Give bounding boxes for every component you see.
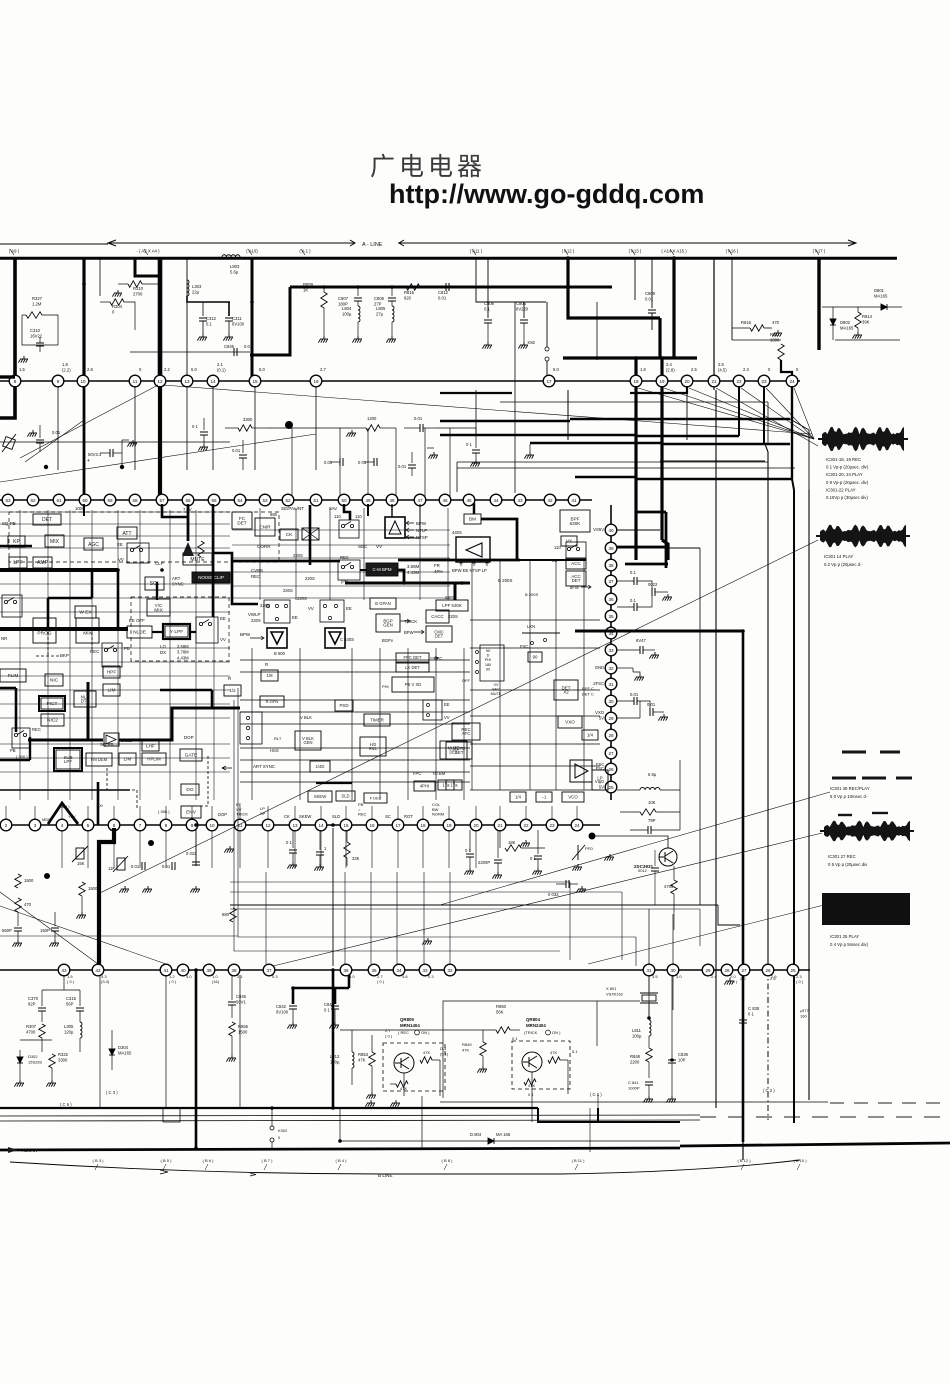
wire [351,1030,353,1052]
ground [492,872,502,879]
svg-text:100µ: 100µ [342,312,352,317]
wire x196 [195,828,197,866]
thick vert x16 [15,688,18,732]
label PB REC [358,802,367,817]
svg-text:0.01: 0.01 [414,416,423,421]
loop wire y936 left [0,935,238,937]
mesh wire [299,648,301,800]
svg-text:2.7: 2.7 [320,367,326,372]
ground [366,1092,376,1099]
pin 43 [514,494,526,506]
svg-text:24: 24 [789,379,795,384]
svg-text:47: 47 [417,498,423,503]
pin voltage 5.0 [259,367,265,372]
block AGC [84,538,103,550]
junction [44,465,48,469]
inductor L804 100u [342,306,352,317]
waveform 5 caption [830,934,869,947]
svg-text:IC301-22 PLAY: IC301-22 PLAY [826,487,856,492]
mesh wire [232,529,450,531]
mesh wire [499,560,501,790]
IC edge row2 [0,499,592,501]
ground [314,864,324,871]
pointer to waveform 2 [100,540,818,893]
wire [338,1164,341,1170]
block LPF [9,557,27,568]
wire [654,850,656,866]
resistor [396,1081,408,1087]
pin voltage 1.5|( 0 ) [67,974,75,984]
svg-text:55: 55 [211,498,217,503]
block 17a [438,780,454,790]
wire [203,418,205,430]
wire [648,1085,650,1096]
svg-text:41: 41 [571,498,577,503]
pin 34 [605,627,617,639]
wire [163,1108,180,1122]
switch [4,598,16,604]
pin 8 [160,819,172,831]
wire [732,327,750,329]
thick wire pin12 down [158,386,162,496]
junction [390,285,394,289]
wire [29,737,31,760]
svg-text:0 1: 0 1 [324,1008,330,1013]
wire [423,427,436,429]
mesh wire [169,510,171,800]
svg-text:2.2: 2.2 [164,367,170,372]
ground [532,868,542,875]
wire [152,631,163,633]
block LP [592,770,608,790]
pin 23 [758,375,770,387]
svg-text:5.1: 5.1 [572,1049,578,1054]
loop wire y468 [457,467,795,469]
diode D802 MA165 [840,320,854,331]
pin stub [422,806,424,820]
wire [79,1038,81,1052]
capacitor C841 1000P [628,1080,640,1091]
svg-text:1/4: 1/4 [515,795,521,800]
resistor [778,344,784,360]
block W EX [75,606,96,618]
svg-text:3.0: 3.0 [676,974,682,979]
svg-text:26: 26 [608,767,614,772]
pointer line [25,420,84,462]
wire [439,1060,441,1096]
thick vert x310 [309,505,312,565]
svg-text:B LINE: B LINE [378,1173,393,1178]
wire [51,1068,53,1080]
svg-text:IC301-20, 24 PLAY: IC301-20, 24 PLAY [826,472,863,477]
svg-text:30: 30 [670,968,676,973]
svg-text:12: 12 [265,823,271,828]
wire [475,436,477,448]
mesh wire [529,560,531,790]
pin 16 [310,375,322,387]
wire [637,701,650,710]
svg-text:C846: C846 [224,344,235,349]
loop wire corner [635,937,637,966]
svg-text:19: 19 [659,379,665,384]
label LP SP [260,806,266,816]
wire [673,866,675,880]
wire [763,386,765,444]
svg-text:1.2M: 1.2M [32,302,42,307]
mesh wire [240,711,470,713]
wire [617,789,640,791]
thick vert x92 [91,570,94,598]
svg-text:470: 470 [772,320,780,325]
block FM DEM [86,753,112,766]
capacitor C838 0.1 [748,1006,760,1017]
thick vert x48 [47,598,50,629]
svg-text:2.4: 2.4 [711,974,717,979]
label frequencies [177,644,189,660]
ground [49,940,59,947]
svg-text:220S: 220S [293,553,303,558]
svg-text:( B 12 ): ( B 12 ) [737,1158,751,1163]
svg-text:47K: 47K [462,1048,469,1053]
svg-text:R849: R849 [462,1042,472,1047]
svg-text:D304: D304 [118,1045,129,1050]
mesh wire [583,560,585,790]
svg-text:35: 35 [371,968,377,973]
block ATT [117,527,137,539]
block BPF 630K [560,510,590,532]
thick vert x212 [211,690,214,708]
inductor [187,280,189,296]
pin voltage 2.7|( 0 ) [377,974,385,984]
pin 17 [392,819,404,831]
pin 28 [721,964,733,976]
capacitor [192,862,200,865]
limiter triangle box 1 [267,628,287,648]
wire [621,892,623,960]
wire [575,1164,578,1170]
block PICT [41,698,63,709]
diode D304 MA165 [118,1045,132,1056]
long line y1116 [0,1115,700,1116]
wire [228,302,230,316]
wire [248,249,252,255]
block 1/8 [261,670,278,681]
phase switch column [480,645,504,681]
thick bar y564 [625,563,668,566]
wire [165,975,167,1108]
pin stub [239,806,241,820]
pin 31 [643,964,655,976]
svg-text:D802: D802 [840,320,851,325]
mesh wire [251,648,253,800]
svg-text:6 8µ: 6 8µ [648,772,657,777]
capacitor C370 82P [28,996,39,1007]
pin 18 [417,819,429,831]
svg-text:16V22: 16V22 [30,334,43,339]
svg-text:LHF: LHF [146,744,155,749]
svg-text:LPF 630K: LPF 630K [442,603,462,608]
wire [497,863,499,872]
pointer to waveform 1 [664,388,814,439]
mesh wire [379,648,381,800]
capacitor [374,458,377,466]
svg-text:NIC: NIC [50,678,59,684]
svg-text:K302: K302 [278,1128,288,1133]
wire [857,328,859,332]
mesh wire [471,560,473,790]
mesh wire [0,771,230,773]
wire [231,975,233,1000]
svg-text:82P: 82P [28,1002,36,1007]
label REF DET [582,686,594,697]
pin stub [397,806,399,820]
svg-text:VXO: VXO [595,710,605,715]
mesh wire [117,510,119,800]
svg-text:1K: 1K [303,288,308,293]
block NLDE [127,626,152,638]
mesh wire [0,757,230,759]
inductor [80,1022,82,1038]
vco amp triangle [570,760,592,782]
thick drop pin56 [187,504,190,541]
svg-text:49: 49 [365,498,371,503]
pointer to waveform 1 [689,388,814,439]
svg-text:C805: C805 [516,301,527,306]
pin voltage 2.3 [743,367,749,372]
C6 bus line [0,1107,538,1109]
svg-text:R817: R817 [770,332,781,337]
svg-text:( B 4 ): ( B 4 ) [336,1158,348,1163]
loop wire y905 [230,904,718,906]
svg-text:R814: R814 [862,314,873,319]
A-LINE right segment [398,242,856,244]
block YNR MIX [76,618,99,643]
waveform dashes group [832,752,912,778]
ground [287,862,297,869]
pin 25 [787,964,799,976]
pin 21 [708,375,720,387]
svg-text:2.8: 2.8 [87,367,93,372]
svg-text:10P: 10P [678,1058,686,1063]
thick bus y436 [636,435,739,438]
svg-text:K82: K82 [528,340,536,345]
pin 37 [263,964,275,976]
mesh wire [213,510,215,800]
thick vert x196 lower [195,970,198,1150]
junction [194,968,198,972]
pin name 2FSC [593,681,604,686]
svg-text:28: 28 [724,968,730,973]
bus drop to pin15 [251,257,254,376]
svg-text:BPW: BPW [416,521,427,526]
pin stub [139,806,141,820]
pin 40 [605,524,617,536]
wire [22,315,58,345]
pin 30 [667,964,679,976]
svg-text:44: 44 [493,498,499,503]
ground [386,336,396,343]
thick bus y287 [290,286,612,289]
wire down from row3 [87,830,89,868]
svg-text:IC301 25 PLAY: IC301 25 PLAY [830,934,859,939]
thin wire [130,351,250,353]
pin 38 [605,559,617,571]
svg-text:38: 38 [231,968,237,973]
svg-text:47K: 47K [358,1058,366,1063]
svg-text:0 1: 0 1 [748,1012,754,1017]
svg-text:BPW EE NTSP LP: BPW EE NTSP LP [452,568,487,573]
junction [647,1016,651,1020]
IC edge right column [610,505,612,800]
svg-text:50V3.3: 50V3.3 [88,452,102,457]
svg-text:SP: SP [260,811,266,816]
svg-text:DOP: DOP [218,812,227,817]
block FPC DET [396,653,429,662]
svg-text:5 0 Vp p 10msec d··: 5 0 Vp p 10msec d·· [830,794,869,799]
wire [738,386,740,436]
pin 21 [494,819,506,831]
wire [670,249,674,255]
A-LINE arrowheads [108,240,856,246]
wire [529,444,531,452]
svg-text:C310: C310 [30,328,41,333]
pin 32 [605,662,617,674]
svg-text:180: 180 [485,663,491,667]
svg-text:54: 54 [237,498,243,503]
svg-text:( A16 ): ( A16 ) [726,249,739,254]
waveform 2 caption [824,554,863,567]
wire K82 to pin17 [546,361,548,376]
svg-text:16: 16 [313,379,319,384]
svg-text:L804: L804 [342,306,352,311]
capacitor [520,320,528,323]
block ACC DET [566,571,586,586]
wire [523,323,525,342]
thick elbow [398,570,404,583]
svg-text:( B 8 ): ( B 8 ) [442,1158,454,1163]
pin wire down [254,386,256,470]
svg-text:15S283: 15S283 [28,1060,43,1065]
IC top edge row [0,380,800,382]
svg-text:1500: 1500 [238,1030,248,1035]
svg-text:3300: 3300 [58,1058,68,1063]
svg-text:ON ): ON ) [421,1030,430,1035]
diode D302 15S283 [28,1054,43,1065]
thick bus y443 left [530,442,662,444]
mesh wire [555,560,557,790]
pin voltage 0 [768,367,771,372]
svg-text:63: 63 [5,498,11,503]
pin 56 [182,494,194,506]
thick drop pin19 [660,358,663,376]
thick vert x333 lower [332,970,335,1108]
pin 17 [543,375,555,387]
svg-text:630K: 630K [570,521,582,526]
wire [391,322,393,336]
dashed box YNR [131,597,229,661]
label DOP [218,812,227,817]
pin 31 [605,678,617,690]
svg-text:0.01: 0.01 [131,864,140,869]
svg-text:9: 9 [191,823,194,828]
svg-text:2.5: 2.5 [691,367,697,372]
svg-text:( A14 X A15 ): ( A14 X A15 ) [661,249,687,254]
resistor [524,1079,536,1085]
block LHF [142,741,159,751]
svg-text:C315: C315 [66,996,77,1001]
junction [116,568,120,572]
thick bus y560b [520,559,586,561]
long vertical x700 [699,548,701,905]
mesh wire [0,535,230,537]
svg-text:13: 13 [184,379,190,384]
pin wire down [315,386,317,470]
long right vertical x794 [792,479,794,1123]
svg-text:IC301 14 PLAY: IC301 14 PLAY [824,554,853,559]
wire [651,258,653,308]
pin 37 [605,575,617,587]
svg-text:C311: C311 [232,316,242,321]
svg-text:(TRICK: (TRICK [524,1030,538,1035]
wire [742,1023,744,1040]
mesh wire [0,611,230,613]
block NIC [45,674,63,686]
ground [604,854,614,861]
junction [356,285,360,289]
wire [637,594,652,607]
pin 9 [52,375,64,387]
wire y442 [0,441,230,443]
left switch [2,595,22,617]
capacitor [472,450,480,453]
svg-text:680: 680 [270,512,278,517]
svg-text:HSS: HSS [270,748,279,753]
svg-text:29: 29 [608,716,614,721]
pin 34 [393,964,405,976]
block DET X2 [554,680,578,700]
wire [19,1063,21,1080]
svg-text:LKN: LKN [527,624,535,629]
block MUTE DET2 [446,742,472,759]
svg-text:BM: BM [469,517,476,522]
svg-text:0.1: 0.1 [484,307,490,312]
block SUB LPF [56,750,80,769]
pin 6 [108,819,120,831]
block DET [33,514,61,525]
wire [79,990,81,1006]
detector triangle box [456,537,490,562]
inductor L811 100u [632,1028,642,1039]
wire [20,1039,52,1041]
svg-text:53: 53 [262,498,268,503]
pin 58 [129,494,141,506]
pin 3 [29,819,41,831]
svg-text:REC: REC [251,574,260,579]
svg-text:23: 23 [549,823,555,828]
svg-text:MIX: MIX [50,539,60,545]
resistor R817 1800 [770,332,781,343]
pin voltage 3.0 [676,974,682,979]
svg-text:1/8: 1/8 [266,673,273,678]
wire [832,325,834,340]
resistor R322 3300 [58,1052,69,1063]
inductor [392,306,394,322]
wire [124,302,135,330]
pin wire down [186,386,188,470]
block 1/4D [310,761,330,772]
svg-text:0.1: 0.1 [630,598,636,603]
svg-text:VXO: VXO [565,720,575,725]
